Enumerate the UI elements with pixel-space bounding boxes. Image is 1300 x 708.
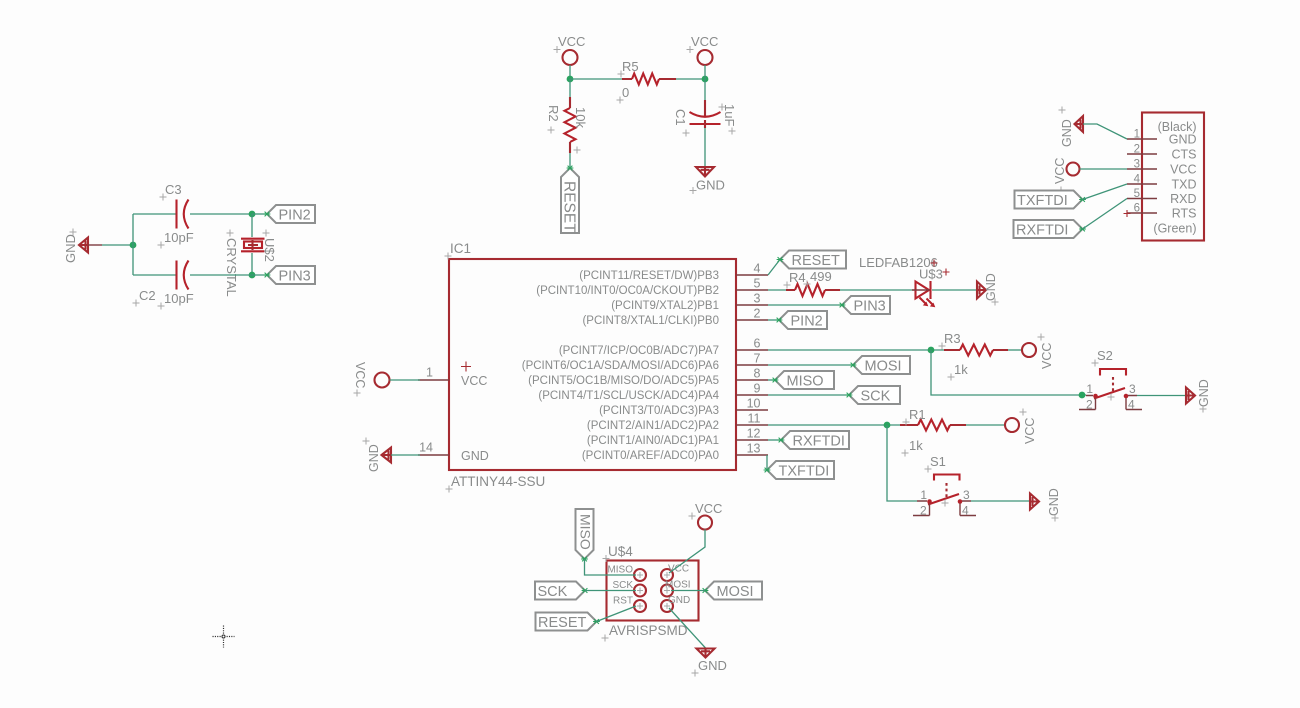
wire RESET label to RST pad xyxy=(597,606,637,622)
wire pin3 to PIN3 xyxy=(768,304,842,306)
svg-text:5: 5 xyxy=(1134,188,1140,200)
svg-text:TXD: TXD xyxy=(1172,178,1197,192)
label MOSI (net) xyxy=(853,356,910,375)
pin label (Green) xyxy=(1153,222,1196,236)
resistor R1 1k xyxy=(900,407,966,457)
wire pin12 to RXFTDI xyxy=(768,439,781,441)
wire pin9 to SCK xyxy=(768,394,849,396)
node MISO attach xyxy=(581,557,588,562)
pad names right xyxy=(665,564,691,607)
svg-text:RESET: RESET xyxy=(538,615,586,631)
svg-text:SCK: SCK xyxy=(861,389,891,405)
svg-text:3: 3 xyxy=(754,292,761,306)
ground GND (IC pin 14) xyxy=(363,438,392,473)
svg-text:(PCINT8/XTAL1/CLKI)PB0: (PCINT8/XTAL1/CLKI)PB0 xyxy=(582,315,719,327)
svg-text:9: 9 xyxy=(754,382,761,396)
svg-text:3: 3 xyxy=(963,488,970,502)
svg-text:VCC: VCC xyxy=(461,374,487,388)
switch S1 xyxy=(913,454,976,518)
node TXFTDI attach xyxy=(1079,197,1086,202)
wire VCC to junction xyxy=(569,65,571,79)
svg-text:CTS: CTS xyxy=(1172,148,1197,162)
node RESET attach xyxy=(567,166,574,171)
node junction crystal gnd xyxy=(130,242,137,249)
wire pin13 to TXFTDI xyxy=(766,455,768,470)
svg-text:GND: GND xyxy=(63,234,78,263)
wire GND pad to ground xyxy=(669,608,706,648)
svg-text:(PCINT5/OC1B/MISO/DO/ADC5)PA5: (PCINT5/OC1B/MISO/DO/ADC5)PA5 xyxy=(528,375,719,387)
wire junction to S2 xyxy=(931,350,1086,395)
node PIN2 attach xyxy=(776,318,783,323)
pin label (Black) xyxy=(1158,120,1197,134)
wire C2 to PIN3 xyxy=(190,274,267,276)
pin label RTS xyxy=(1172,207,1197,221)
pin label VCC xyxy=(1170,163,1196,177)
svg-text:2: 2 xyxy=(920,504,927,518)
svg-text:RESET: RESET xyxy=(561,181,578,233)
wire junction down to R2 xyxy=(569,79,571,97)
svg-text:10: 10 xyxy=(747,397,761,411)
svg-text:SCK: SCK xyxy=(538,584,568,600)
svg-text:C1: C1 xyxy=(673,109,688,126)
wire junction to S1 xyxy=(887,425,917,501)
supply VCC (FTDI) xyxy=(1053,158,1080,194)
wire R5 to right junction xyxy=(676,78,705,80)
svg-text:8: 8 xyxy=(754,367,761,381)
label PIN3 (left) xyxy=(267,266,315,285)
wire pin11 to R1 xyxy=(768,424,900,426)
wire GND to pin14 xyxy=(391,454,420,456)
svg-text:MISO: MISO xyxy=(787,374,824,390)
ground GND (FTDI) xyxy=(1059,107,1084,148)
svg-text:1: 1 xyxy=(426,366,433,380)
svg-text:MISO: MISO xyxy=(578,514,594,550)
svg-text:1k: 1k xyxy=(954,362,968,377)
svg-text:4: 4 xyxy=(1128,398,1135,412)
pin 5 FTDI xyxy=(1127,188,1157,200)
pin label GND xyxy=(1169,133,1197,147)
pin 9 (PCINT4/T1/SCL/USCK/ADC4)PA4 xyxy=(538,382,768,403)
svg-text:GND: GND xyxy=(668,595,690,606)
svg-text:(PCINT9/XTAL2)PB1: (PCINT9/XTAL2)PB1 xyxy=(611,300,719,312)
pin 2 FTDI xyxy=(1127,144,1157,156)
svg-text:PIN2: PIN2 xyxy=(791,314,823,330)
svg-text:10k: 10k xyxy=(573,107,588,128)
wire MOSI label to pad xyxy=(671,590,705,592)
svg-text:VCC: VCC xyxy=(1040,343,1054,369)
pin 13 (PCINT0/AREF/ADC0)PA0 xyxy=(582,442,768,463)
svg-text:VCC: VCC xyxy=(353,362,367,388)
svg-text:4: 4 xyxy=(754,262,761,276)
svg-text:GND: GND xyxy=(461,449,489,463)
svg-text:(PCINT11/RESET/DW)PB3: (PCINT11/RESET/DW)PB3 xyxy=(579,270,719,282)
pad VCC xyxy=(661,569,673,581)
node MOSI attach xyxy=(850,363,857,368)
pin 1 VCC xyxy=(418,366,449,381)
wire to C2 xyxy=(133,274,176,276)
svg-text:GND: GND xyxy=(698,658,727,673)
node SCK attach xyxy=(846,393,853,398)
pin 1 FTDI xyxy=(1127,129,1157,141)
svg-text:(PCINT4/T1/SCL/USCK/ADC4)PA4: (PCINT4/T1/SCL/USCK/ADC4)PA4 xyxy=(538,390,719,402)
wire pin7 to MOSI xyxy=(768,364,853,366)
pad GND xyxy=(661,600,673,612)
svg-text:PIN3: PIN3 xyxy=(854,299,886,315)
pad SCK xyxy=(634,585,646,597)
wire MISO label to pad xyxy=(585,559,637,575)
svg-text:TXFTDI: TXFTDI xyxy=(1017,193,1068,209)
node junction pin3 xyxy=(249,272,256,279)
node junction pin2 xyxy=(249,211,256,218)
svg-text:GND: GND xyxy=(1047,488,1061,516)
svg-text:VCC: VCC xyxy=(668,564,689,575)
label RESET (ISP) xyxy=(536,613,597,632)
wire VCC to pin1 xyxy=(390,379,421,381)
capacitor C2 10pF xyxy=(133,261,194,310)
node junction R1 xyxy=(884,422,891,429)
svg-text:499: 499 xyxy=(810,269,832,284)
node PIN2 attach xyxy=(264,212,271,217)
svg-text:U$4: U$4 xyxy=(608,544,633,559)
node PIN3 attach xyxy=(839,303,846,308)
svg-text:12: 12 xyxy=(747,427,761,441)
supply VCC (top left of R5) xyxy=(554,34,586,65)
svg-text:0: 0 xyxy=(622,85,629,100)
svg-text:RXFTDI: RXFTDI xyxy=(793,434,845,450)
wire TXFTDI to TXD xyxy=(1083,184,1128,200)
wire R4 to LED xyxy=(840,289,915,291)
svg-text:6: 6 xyxy=(1134,203,1140,215)
svg-text:R4: R4 xyxy=(789,270,806,285)
node MOSI attach xyxy=(702,588,709,593)
pin 10 (PCINT3/T0/ADC3)PA3 xyxy=(599,397,768,418)
capacitor C3 10pF xyxy=(158,182,194,249)
svg-text:GND: GND xyxy=(367,444,381,472)
wire RXFTDI to RXD xyxy=(1083,199,1128,230)
label TXFTDI (net) xyxy=(767,461,834,480)
svg-text:2: 2 xyxy=(1086,398,1093,412)
pin 11 (PCINT2/AIN1/ADC2)PA2 xyxy=(587,412,768,433)
pin 6 FTDI xyxy=(1127,203,1157,215)
wire to PIN2 label xyxy=(252,213,267,215)
crystal US2 xyxy=(224,230,277,297)
svg-text:RST: RST xyxy=(613,596,633,607)
IC U1 ATTINY44-SSU body xyxy=(445,241,737,493)
svg-text:S2: S2 xyxy=(1097,348,1113,363)
svg-text:4: 4 xyxy=(962,504,969,518)
node MISO attach xyxy=(772,378,779,383)
svg-text:VCC: VCC xyxy=(558,34,585,49)
wire to C3 xyxy=(133,213,176,215)
svg-text:14: 14 xyxy=(419,441,433,455)
wire VCC to pad xyxy=(669,530,705,574)
svg-text:U$3: U$3 xyxy=(919,267,943,282)
pin 3 FTDI xyxy=(1127,159,1157,171)
svg-text:AVRISPSMD: AVRISPSMD xyxy=(609,623,688,638)
supply VCC (ISP) xyxy=(689,501,723,530)
svg-text:VCC: VCC xyxy=(1023,418,1037,444)
svg-text:(PCINT2/AIN1/ADC2)PA2: (PCINT2/AIN1/ADC2)PA2 xyxy=(587,420,719,432)
ground GND (LED) xyxy=(977,273,999,305)
svg-text:R5: R5 xyxy=(622,59,639,74)
wire C3 to junction xyxy=(190,213,252,215)
svg-text:PIN2: PIN2 xyxy=(279,208,311,224)
svg-text:VCC: VCC xyxy=(1170,163,1196,177)
wire GND to pin1 xyxy=(1083,124,1127,139)
label PIN2 (net) xyxy=(779,311,827,330)
label TXFTDI (FTDI side) xyxy=(1015,191,1083,210)
pin 8 (PCINT5/OC1B/MISO/DO/ADC5)PA5 xyxy=(528,367,768,388)
svg-text:GND: GND xyxy=(1169,133,1197,147)
node junction right xyxy=(702,76,709,83)
node RESET attach xyxy=(593,619,600,624)
pin 4 (PCINT11/RESET/DW)PB3 xyxy=(579,262,768,283)
svg-text:GND: GND xyxy=(696,178,725,193)
label MISO (net) xyxy=(775,371,834,390)
node junction R3 xyxy=(928,347,935,354)
svg-text:10pF: 10pF xyxy=(164,230,194,245)
label MOSI (ISP) xyxy=(705,582,762,601)
label PIN2 (left) xyxy=(267,205,315,224)
ground GND (S2) xyxy=(1186,379,1211,412)
svg-text:2: 2 xyxy=(754,307,761,321)
ground GND (S1) xyxy=(1030,488,1061,521)
wire pin4 to RESET xyxy=(768,260,780,276)
capacitor C1 1uF xyxy=(673,100,737,137)
svg-text:VCC: VCC xyxy=(1053,158,1067,184)
pin 12 (PCINT1/AIN0/ADC1)PA1 xyxy=(587,427,768,448)
node RXFTDI attach xyxy=(1079,227,1086,232)
svg-text:MOSI: MOSI xyxy=(865,359,902,375)
value cross FTDI xyxy=(1124,210,1131,217)
svg-text:GND: GND xyxy=(1060,119,1074,147)
svg-text:MOSI: MOSI xyxy=(717,584,754,600)
pin 7 (PCINT6/OC1A/SDA/MOSI/ADC6)PA6 xyxy=(522,352,768,373)
wire pin8 to MISO xyxy=(768,379,775,381)
node RESET attach xyxy=(777,257,784,262)
svg-text:(Green): (Green) xyxy=(1153,222,1196,236)
svg-text:S1: S1 xyxy=(930,454,946,469)
svg-text:ATTINY44-SSU: ATTINY44-SSU xyxy=(451,474,545,489)
LED U$3 LEDFAB1206 xyxy=(859,255,950,307)
wire pin2 to PIN2 xyxy=(768,319,779,321)
connector U$4 AVRISPSMD body xyxy=(602,544,699,642)
svg-text:1k: 1k xyxy=(909,438,923,453)
svg-text:(PCINT6/OC1A/SDA/MOSI/ADC6)PA6: (PCINT6/OC1A/SDA/MOSI/ADC6)PA6 xyxy=(522,360,719,372)
svg-text:GND: GND xyxy=(1197,379,1211,407)
connector J1 FTDI body xyxy=(1142,113,1204,241)
wire S1 to GND xyxy=(971,500,1030,502)
label SCK (net) xyxy=(849,386,900,405)
svg-text:1: 1 xyxy=(920,488,927,502)
ground GND (below C1) xyxy=(690,167,725,194)
svg-text:1: 1 xyxy=(1134,129,1140,141)
pad RST xyxy=(634,600,646,612)
svg-text:(PCINT0/AREF/ADC0)PA0: (PCINT0/AREF/ADC0)PA0 xyxy=(582,450,719,462)
svg-text:GND: GND xyxy=(984,273,998,301)
label SCK xyxy=(535,582,585,601)
supply VCC (R1) xyxy=(1005,409,1037,445)
ground GND (far left) xyxy=(63,229,88,264)
wire junction to R5 xyxy=(570,78,622,80)
svg-text:6: 6 xyxy=(754,337,761,351)
svg-text:SCK: SCK xyxy=(612,580,633,591)
wire pin6 to R3 xyxy=(768,349,944,351)
wire R3 to VCC xyxy=(1008,349,1022,351)
svg-text:RTS: RTS xyxy=(1172,207,1197,221)
svg-text:13: 13 xyxy=(747,442,761,456)
wire junction to crystal xyxy=(251,214,253,237)
pin wire GND xyxy=(88,244,102,246)
pad MOSI xyxy=(661,585,673,597)
svg-text:U$2: U$2 xyxy=(262,238,277,262)
wire SCK label to pad xyxy=(585,590,636,592)
label RESET (vertical flag) xyxy=(561,168,580,233)
wire GND to junction xyxy=(102,244,133,246)
label PIN3 (net) xyxy=(842,296,890,315)
pin 4 FTDI xyxy=(1127,174,1157,186)
ground GND (ISP) xyxy=(692,649,727,677)
pin 14 GND xyxy=(418,441,449,456)
pin label RXD xyxy=(1170,192,1196,206)
svg-text:PIN3: PIN3 xyxy=(279,269,311,285)
wire VCC right to junction xyxy=(704,65,706,79)
label RXFTDI (net) xyxy=(781,431,849,450)
node S2 attach xyxy=(1079,392,1086,399)
svg-text:(PCINT7/ICP/OC0B/ADC7)PA7: (PCINT7/ICP/OC0B/ADC7)PA7 xyxy=(559,345,719,357)
node SCK attach xyxy=(582,588,589,593)
svg-text:VCC: VCC xyxy=(691,34,718,49)
wire R1 to VCC xyxy=(966,424,1005,426)
node TXFTDI attach xyxy=(764,468,771,473)
svg-text:CRYSTAL: CRYSTAL xyxy=(224,238,239,297)
svg-text:R3: R3 xyxy=(944,331,961,346)
wire C1 to GND xyxy=(704,128,706,167)
node junction left xyxy=(567,76,574,83)
node PIN3 attach xyxy=(264,273,271,278)
pin label TXD xyxy=(1172,178,1197,192)
node RXFTDI attach xyxy=(778,438,785,443)
svg-text:VCC: VCC xyxy=(695,501,722,516)
svg-text:R1: R1 xyxy=(909,407,926,422)
pad names left xyxy=(607,565,633,607)
svg-text:TXFTDI: TXFTDI xyxy=(779,464,830,480)
svg-text:10pF: 10pF xyxy=(164,291,194,306)
svg-text:R2: R2 xyxy=(546,105,561,122)
wire crystal to junction pin3 xyxy=(251,253,253,275)
pin 5 (PCINT10/INT0/OC0A/CKOUT)PB2 xyxy=(536,277,768,298)
supply VCC (top right) xyxy=(687,34,719,65)
svg-text:RESET: RESET xyxy=(792,253,840,269)
svg-text:MOSI: MOSI xyxy=(665,580,691,591)
pin 3 (PCINT9/XTAL2)PB1 xyxy=(611,292,768,313)
svg-text:(PCINT1/AIN0/ADC1)PA1: (PCINT1/AIN0/ADC1)PA1 xyxy=(587,435,719,447)
svg-text:MISO: MISO xyxy=(607,565,633,576)
svg-text:RXD: RXD xyxy=(1170,192,1196,206)
svg-text:RXFTDI: RXFTDI xyxy=(1016,223,1068,239)
label RESET (net) xyxy=(780,251,846,270)
wire VCC to pin3 xyxy=(1080,168,1128,170)
svg-text:11: 11 xyxy=(748,412,761,426)
wire R2 to RESET label xyxy=(569,153,571,168)
svg-text:1: 1 xyxy=(1086,382,1093,396)
wire vertical branch xyxy=(132,214,134,275)
svg-text:5: 5 xyxy=(754,277,761,291)
pin 2 (PCINT8/XTAL1/CLKI)PB0 xyxy=(582,307,768,328)
label RXFTDI (FTDI side) xyxy=(1014,220,1083,239)
resistor R4 499 xyxy=(784,269,841,296)
wire LED to GND xyxy=(932,289,977,291)
switch S2 xyxy=(1079,348,1142,412)
svg-text:4: 4 xyxy=(1134,174,1141,186)
svg-text:IC1: IC1 xyxy=(450,241,471,256)
wire S2 to GND xyxy=(1137,395,1186,397)
svg-text:3: 3 xyxy=(1134,159,1140,171)
pin 6 (PCINT7/ICP/OC0B/ADC7)PA7 xyxy=(559,337,768,358)
svg-text:(PCINT10/INT0/OC0A/CKOUT)PB2: (PCINT10/INT0/OC0A/CKOUT)PB2 xyxy=(536,285,719,297)
mouse crosshair cursor xyxy=(213,626,235,648)
svg-text:3: 3 xyxy=(1129,382,1136,396)
svg-text:C3: C3 xyxy=(165,182,182,197)
label MISO (vertical flag) xyxy=(576,509,594,559)
supply VCC (R3) xyxy=(1022,334,1054,370)
svg-text:2: 2 xyxy=(1134,144,1140,156)
pad MISO xyxy=(634,569,646,581)
resistor R5 xyxy=(617,59,677,104)
resistor R2 10k xyxy=(546,97,588,154)
svg-text:(PCINT3/T0/ADC3)PA3: (PCINT3/T0/ADC3)PA3 xyxy=(599,405,719,417)
wire junction down to C1 xyxy=(704,79,706,100)
supply VCC (IC pin 1) xyxy=(353,362,390,397)
svg-text:7: 7 xyxy=(754,352,761,366)
resistor R3 1k xyxy=(939,331,1009,381)
svg-text:C2: C2 xyxy=(139,288,156,303)
wire pin5 to R4 xyxy=(768,289,786,291)
pin label CTS xyxy=(1172,148,1197,162)
